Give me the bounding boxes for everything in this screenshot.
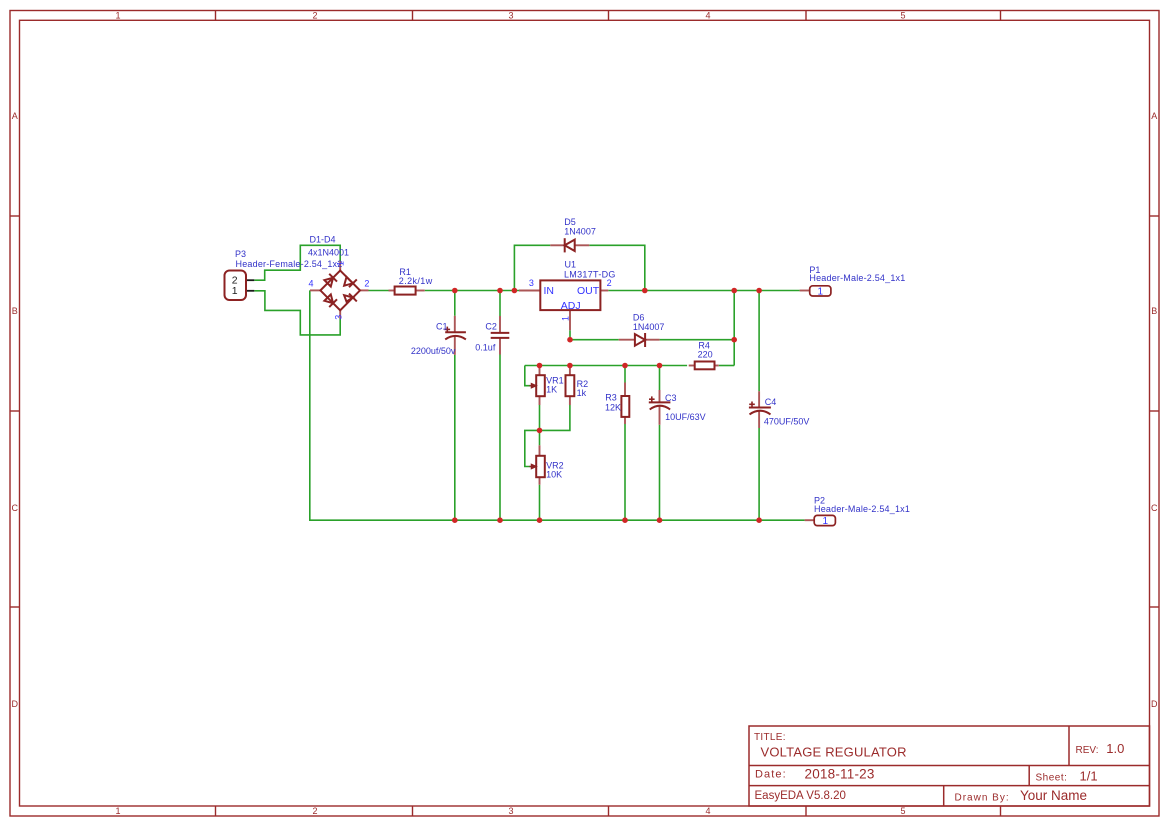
svg-text:2018-11-23: 2018-11-23 (805, 766, 875, 781)
svg-text:1: 1 (115, 11, 120, 21)
svg-text:2.2k/1w: 2.2k/1w (399, 276, 433, 286)
svg-text:1.0: 1.0 (1106, 741, 1124, 756)
svg-text:U1: U1 (565, 259, 577, 269)
svg-text:10K: 10K (546, 469, 562, 479)
svg-text:1k: 1k (577, 388, 587, 398)
svg-text:D: D (1151, 699, 1158, 709)
svg-text:4: 4 (705, 11, 710, 21)
svg-text:Date:: Date: (755, 769, 787, 781)
svg-text:0.1uf: 0.1uf (475, 342, 496, 352)
svg-text:1/1: 1/1 (1080, 768, 1098, 783)
svg-text:D5: D5 (564, 217, 576, 227)
svg-text:2: 2 (312, 806, 317, 816)
svg-text:B: B (1151, 306, 1157, 316)
svg-text:C: C (11, 503, 18, 513)
svg-text:2: 2 (312, 11, 317, 21)
svg-text:TITLE:: TITLE: (754, 732, 786, 743)
svg-text:OUT: OUT (577, 285, 600, 297)
svg-text:C4: C4 (765, 397, 777, 407)
svg-text:470UF/50V: 470UF/50V (764, 416, 810, 426)
svg-text:C2: C2 (485, 322, 497, 332)
svg-text:C: C (1151, 503, 1158, 513)
svg-text:1: 1 (336, 261, 346, 266)
svg-text:Sheet:: Sheet: (1036, 772, 1068, 783)
svg-text:R3: R3 (605, 392, 617, 402)
svg-text:12K: 12K (605, 402, 621, 412)
svg-text:IN: IN (544, 285, 555, 297)
svg-text:D1-D4: D1-D4 (310, 234, 336, 244)
svg-text:P3: P3 (235, 249, 246, 259)
svg-text:3: 3 (508, 11, 513, 21)
svg-text:3: 3 (334, 315, 344, 320)
svg-text:1K: 1K (546, 385, 557, 395)
svg-text:220: 220 (698, 349, 713, 359)
svg-text:A: A (12, 111, 18, 121)
svg-text:4: 4 (705, 806, 710, 816)
svg-text:A: A (1151, 111, 1157, 121)
svg-text:3: 3 (529, 278, 534, 288)
svg-text:2: 2 (607, 278, 612, 288)
svg-text:Header-Male-2.54_1x1: Header-Male-2.54_1x1 (814, 504, 910, 514)
svg-text:VOLTAGE REGULATOR: VOLTAGE REGULATOR (761, 745, 907, 760)
svg-text:10UF/63V: 10UF/63V (665, 412, 706, 422)
svg-text:3: 3 (508, 806, 513, 816)
svg-text:C3: C3 (665, 393, 677, 403)
svg-text:Your Name: Your Name (1020, 788, 1087, 803)
svg-text:1N4007: 1N4007 (633, 322, 665, 332)
svg-text:2: 2 (364, 279, 369, 289)
svg-text:1: 1 (115, 806, 120, 816)
svg-text:EasyEDA V5.8.20: EasyEDA V5.8.20 (755, 790, 846, 802)
svg-text:1: 1 (823, 516, 829, 527)
svg-text:1: 1 (232, 285, 238, 297)
svg-text:REV:: REV: (1076, 745, 1099, 756)
svg-text:Header-Male-2.54_1x1: Header-Male-2.54_1x1 (809, 273, 905, 283)
svg-text:D: D (11, 699, 18, 709)
svg-text:1N4007: 1N4007 (564, 227, 596, 237)
svg-text:C1: C1 (436, 321, 448, 331)
svg-text:ADJ: ADJ (561, 300, 581, 312)
svg-text:5: 5 (900, 806, 905, 816)
svg-text:1: 1 (818, 287, 824, 298)
svg-text:2200uf/50v: 2200uf/50v (411, 346, 456, 356)
svg-text:1: 1 (561, 316, 571, 321)
svg-text:4: 4 (309, 279, 314, 289)
svg-text:5: 5 (900, 11, 905, 21)
svg-text:Header-Female-2.54_1x2: Header-Female-2.54_1x2 (236, 259, 343, 269)
svg-text:Drawn By:: Drawn By: (955, 793, 1010, 804)
svg-text:B: B (12, 306, 18, 316)
svg-text:4x1N4001: 4x1N4001 (308, 248, 349, 258)
